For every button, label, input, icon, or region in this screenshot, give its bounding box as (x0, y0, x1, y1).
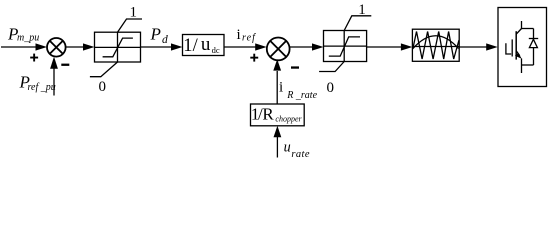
svg-text:1: 1 (358, 2, 366, 18)
svg-text:1: 1 (129, 5, 137, 21)
gain block 1/R_chopper (251, 104, 305, 126)
node i_R_rate (279, 80, 318, 101)
IGBT Q1 gate lead (506, 43, 511, 54)
plus sign at summing junction S1 (30, 54, 38, 62)
IGBT Q1 collector (516, 21, 521, 34)
wire P_ref_pu to summing junction S1 (53, 68, 55, 96)
svg-text:chopper: chopper (275, 114, 302, 123)
node P_ref_pu (19, 73, 56, 93)
wire S1 to limiter 1 (66, 46, 85, 48)
svg-text:ref _pu: ref _pu (28, 82, 56, 93)
svg-text:dc: dc (212, 45, 220, 55)
diode D1 (529, 39, 538, 48)
IGBT Q1 body bar (515, 31, 517, 59)
wire L2 to PWM block (367, 46, 403, 48)
node P_m_pu (7, 25, 39, 44)
svg-text:1: 1 (183, 36, 192, 56)
lower limit callout of L2 (319, 62, 344, 72)
minus sign at summing junction S2 (291, 66, 299, 68)
IGBT Q1 emitter with arrow (515, 51, 522, 73)
IGBT block (498, 8, 547, 87)
svg-text:/: / (193, 36, 199, 56)
node i_ref (237, 27, 257, 44)
wire u_rate to chopper block (276, 137, 278, 158)
wire S2 to limiter 2 (290, 46, 314, 48)
svg-text:m_pu: m_pu (17, 33, 39, 44)
divider block 1/u_dc (183, 34, 225, 56)
limiter block L1 (saturation 0..1) (95, 32, 141, 62)
top rail (522, 28, 534, 30)
node P_d (150, 25, 169, 46)
wire chopper block to summing junction S2 (276, 71, 278, 104)
IGBT Q1 gate bar (511, 39, 513, 56)
svg-text:u: u (284, 140, 291, 156)
upper limit callout of L1 (118, 19, 143, 32)
svg-text:i: i (279, 80, 283, 96)
svg-text:R _rate: R _rate (286, 90, 317, 101)
summing junction S2 (267, 38, 290, 61)
diode D1 branch wire (533, 29, 535, 66)
svg-text:0: 0 (98, 79, 106, 95)
PWM comparator block (412, 29, 459, 61)
bottom rail (522, 64, 534, 66)
wire divider to summing junction S2 (224, 46, 257, 48)
wire L1 to divider block (141, 46, 173, 48)
svg-text:rate: rate (291, 149, 310, 160)
wire PWM to IGBT block (459, 46, 487, 48)
lower limit callout of L1 (90, 62, 118, 77)
svg-text:ref: ref (242, 33, 256, 44)
minus sign at summing junction S1 (61, 64, 69, 66)
svg-text:0: 0 (326, 80, 334, 96)
svg-text:d: d (162, 34, 168, 46)
plus sign at summing junction S2 (250, 54, 258, 62)
svg-text:i: i (237, 27, 241, 43)
wire input to summing junction (1, 46, 37, 48)
upper limit callout of L2 (344, 16, 371, 31)
svg-text:R: R (262, 105, 274, 124)
svg-text:u: u (201, 34, 211, 55)
summing junction S1 (47, 38, 66, 57)
svg-text:P: P (150, 25, 161, 44)
limiter block L2 (saturation 0..1) (324, 31, 367, 62)
node u_rate (284, 140, 310, 161)
